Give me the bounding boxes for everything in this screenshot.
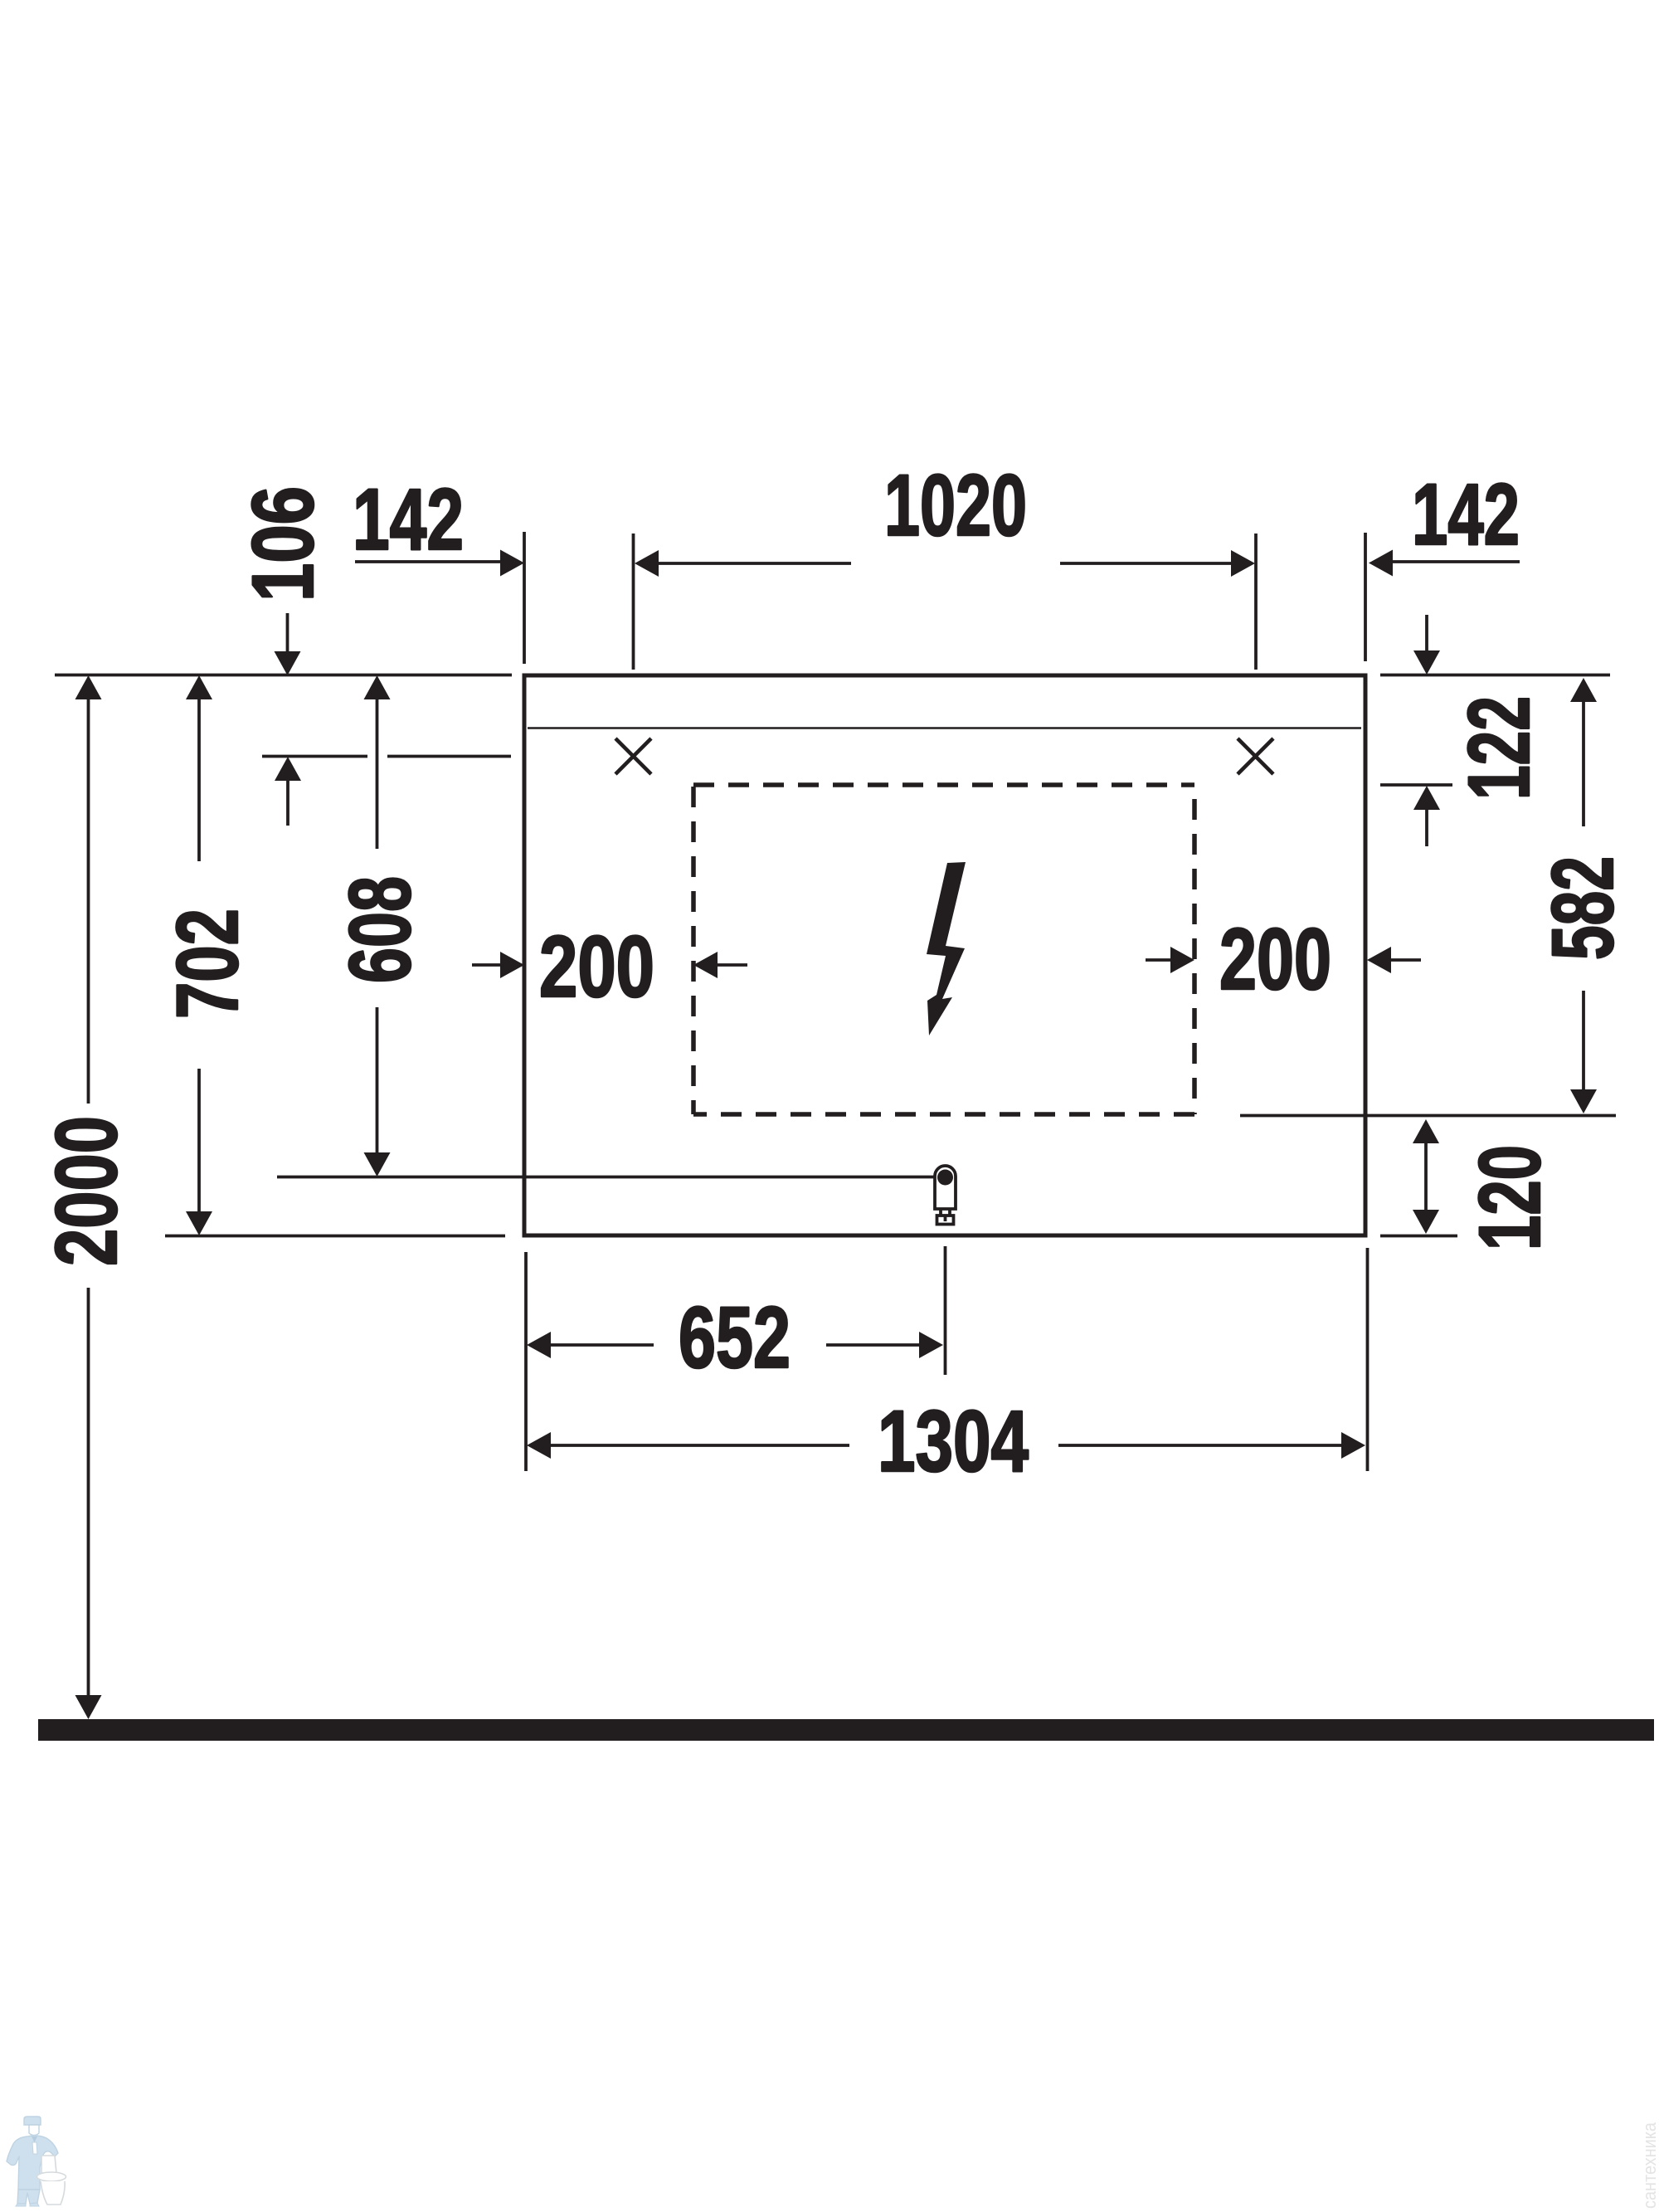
- svg-text:2000: 2000: [38, 1116, 135, 1266]
- lighting strip line: [528, 727, 1361, 729]
- extension lines: [55, 532, 1616, 1471]
- svg-text:122: 122: [1451, 696, 1548, 800]
- ext above left fixation: [632, 534, 635, 670]
- electrical zone dashed box: [693, 785, 1194, 1114]
- svg-text:702: 702: [159, 909, 256, 1019]
- dimension 142 left: [353, 471, 524, 577]
- tick dashed-top-level right: [1380, 783, 1452, 787]
- ext above right fixation: [1254, 534, 1258, 670]
- dimension 106 (top edge to fixation level): [235, 486, 332, 826]
- svg-text:582: 582: [1535, 856, 1632, 960]
- mirror body outline: [524, 675, 1365, 1235]
- lightning bolt: [927, 862, 966, 1035]
- ext below mirror left corner: [524, 1252, 528, 1471]
- ext above mirror left edge: [523, 532, 526, 664]
- dimension 2000 (top edge to floor): [38, 675, 135, 1719]
- dimension 200 right (zone to mirror edge): [1146, 911, 1421, 1008]
- dimension 142 right: [1369, 466, 1520, 577]
- dimension 1020 (between fixations): [635, 457, 1255, 577]
- dimension 608 (top edge to sensor): [332, 675, 429, 1177]
- svg-text:сантехника: сантехника: [1639, 2122, 1659, 2209]
- svg-text:142: 142: [353, 471, 464, 568]
- sensor switch symbol: [935, 1166, 956, 1225]
- ext mirror-bottom leftwards: [165, 1235, 505, 1238]
- fixation X right: [1238, 738, 1273, 774]
- ext top edge rightwards: [1380, 674, 1610, 677]
- ext dashed-bottom-level right: [1240, 1114, 1616, 1118]
- ext top edge leftwards: [55, 674, 512, 677]
- sensor reference line: [277, 1176, 935, 1179]
- dimension 652 (left edge to sensor): [527, 1289, 943, 1386]
- svg-text:120: 120: [1462, 1145, 1559, 1250]
- svg-text:142: 142: [1412, 466, 1520, 563]
- fixation X left: [615, 738, 651, 774]
- dimension 122 (top edge to connection zone): [1413, 615, 1548, 846]
- floor line: [38, 1719, 1654, 1741]
- tick X-level left: [262, 755, 367, 758]
- svg-text:1020: 1020: [884, 457, 1027, 554]
- ext above mirror right edge: [1364, 533, 1367, 661]
- tick mirror-bottom right: [1380, 1235, 1457, 1238]
- dimension 1304 (mirror width): [527, 1393, 1365, 1490]
- dimension 582 (top edge to zone bottom): [1535, 678, 1632, 1113]
- watermark plumber figure: [7, 2117, 66, 2206]
- svg-text:106: 106: [235, 486, 332, 602]
- dimension 702 (mirror height): [159, 675, 256, 1235]
- svg-text:200: 200: [539, 918, 654, 1016]
- ext below sensor: [944, 1246, 947, 1375]
- dimension 120 (zone bottom to mirror bottom): [1413, 1119, 1559, 1250]
- svg-text:1304: 1304: [878, 1393, 1029, 1490]
- dimension 200 left (mirror edge to zone): [472, 918, 747, 1016]
- ext below mirror right corner: [1366, 1248, 1370, 1471]
- svg-text:200: 200: [1219, 911, 1331, 1008]
- svg-text:652: 652: [679, 1289, 791, 1386]
- svg-text:608: 608: [332, 876, 429, 983]
